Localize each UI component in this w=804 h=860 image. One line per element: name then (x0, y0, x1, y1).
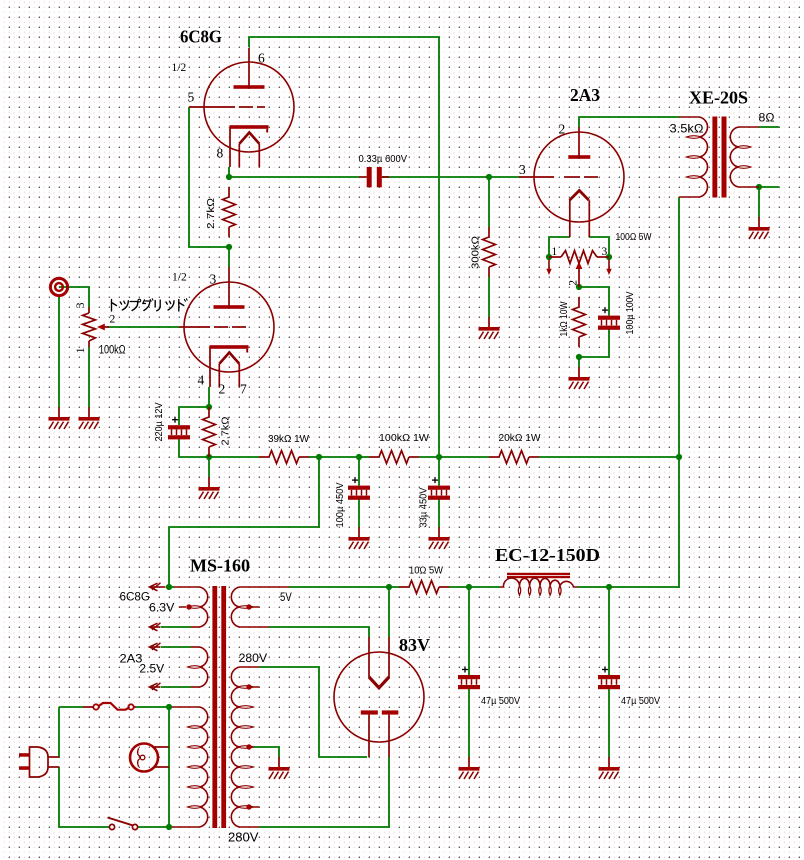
svg-text:20kΩ 1W: 20kΩ 1W (499, 432, 541, 444)
node primary top (166, 704, 172, 710)
wire 47u left bottom (468, 689, 470, 757)
node rail junction B (316, 454, 322, 460)
svg-text:0.33µ 600V: 0.33µ 600V (359, 153, 408, 165)
svg-text:1/2: 1/2 (172, 62, 187, 74)
wire pin8 node to coupling cap (229, 176, 359, 178)
transformer T2 secondary (739, 126, 760, 128)
inductor L1 choke (507, 573, 570, 575)
resistor R7 20k 1W (489, 456, 499, 458)
node choke right (606, 584, 612, 590)
transformer T1 2.5V lens (188, 666, 202, 669)
wire 47u left top (468, 587, 470, 675)
node primary bottom (166, 824, 172, 830)
transformer T1 HV winding (240, 666, 260, 668)
node 2A3 grid junction (486, 174, 492, 180)
wire left plate lead gr (368, 756, 370, 758)
ground jack (58, 407, 60, 417)
resistor R3 100k pot input (88, 307, 90, 313)
svg-text:6C8G: 6C8G (180, 27, 222, 47)
svg-text:3: 3 (519, 162, 526, 177)
svg-text:2: 2 (110, 314, 116, 326)
tube U1a plate (234, 85, 265, 89)
wire plug bottom prong to switch (59, 767, 110, 827)
transformer T1 2.5V winding (191, 646, 200, 648)
tube V3 plate right (382, 710, 399, 714)
wire rail to 39k (209, 456, 259, 458)
transformer T1 6.3V winding (174, 586, 200, 588)
arrow conn 6.3V top (150, 586, 166, 588)
capacitor C1 0.33u coupling (367, 167, 372, 187)
svg-text:2: 2 (219, 382, 226, 397)
ground 1k bypass (578, 367, 580, 377)
wire heater 2.5V bottom (161, 686, 191, 688)
wire wiper node right (579, 287, 609, 316)
svg-text:1: 1 (75, 347, 87, 353)
wire node B to node C (319, 456, 359, 458)
svg-text:6.3V: 6.3V (149, 603, 175, 615)
svg-text:280V: 280V (239, 653, 268, 665)
wire choke right to corner (578, 586, 610, 588)
svg-text:3: 3 (75, 302, 87, 308)
wire plug top prong (58, 707, 60, 757)
transformer T1 core (212, 586, 217, 828)
resistor R10 10R 5W (399, 586, 409, 588)
ground 47u right (608, 757, 610, 767)
lamp DS1 pilot (130, 744, 158, 772)
pot arrow down right (608, 260, 610, 270)
resistor R6 100k 1W (369, 456, 379, 458)
wire 100u100 bottom (579, 329, 609, 357)
wire 100u450 top (358, 457, 360, 486)
arrow conn 2.5V bottom (150, 686, 161, 688)
tube V3 filament (369, 677, 389, 688)
wire pot wiper to tube2 grid (107, 326, 179, 328)
tube U1b heater (219, 353, 239, 364)
capacitor C3 100u 450V (348, 486, 370, 490)
wire 220u bottom to rail (179, 439, 209, 457)
transformer T1 5V lens tap (238, 606, 254, 609)
pot arrow down left (548, 260, 550, 270)
svg-text:39kΩ 1W: 39kΩ 1W (268, 433, 309, 445)
node plate2 junction (226, 244, 232, 250)
resistor R4 2.7k cathode2 (208, 407, 210, 417)
wire 300k to ground (488, 277, 490, 317)
wire OPT sec top stub (759, 126, 779, 128)
wire mains fuse left (59, 706, 83, 708)
tube U1a grid (189, 106, 235, 108)
tube U1b grid (179, 326, 210, 328)
transformer T2 primary lenses (686, 136, 701, 139)
transformer T1 5V winding (240, 586, 290, 588)
svg-text:2.5V: 2.5V (139, 664, 164, 676)
tube U1b plate (214, 305, 245, 309)
svg-text:100µ 100V: 100µ 100V (624, 292, 636, 335)
svg-text:10Ω 5W: 10Ω 5W (409, 565, 443, 577)
wire node C to 100k (359, 456, 369, 458)
svg-text:1kΩ 10W: 1kΩ 10W (558, 301, 570, 336)
wire primary side vertical (168, 707, 170, 827)
tube V2 filament (570, 191, 589, 201)
plug P1 AC (30, 747, 49, 777)
wire 47u right bottom (608, 689, 610, 757)
ground 47u left (468, 757, 470, 767)
svg-text:280V: 280V (228, 831, 259, 845)
pot wiper arrow (97, 324, 105, 331)
wire OPT sec bottom stub (759, 186, 779, 188)
wire HV bottom to right plate (259, 757, 389, 827)
capacitor C7 47u 500V right (598, 675, 620, 679)
ground cathode2 rail (208, 457, 210, 477)
wire jack shield down (58, 297, 60, 407)
svg-text:5: 5 (188, 90, 195, 105)
ground 300k (488, 317, 490, 327)
svg-text:2.7kΩ: 2.7kΩ (220, 416, 232, 445)
wire HV top to left plate (259, 667, 367, 757)
ground pot (88, 407, 90, 417)
node rail junction D (436, 454, 442, 460)
ground HV center tap (278, 757, 280, 767)
capacitor C2 220u cathode2 (168, 425, 190, 429)
pot R8 100R 5W hum (549, 256, 561, 258)
svg-text:3.5kΩ: 3.5kΩ (670, 122, 704, 136)
svg-text:EC-12-150D: EC-12-150D (495, 545, 600, 565)
tube U1a heater (239, 133, 259, 144)
svg-text:8: 8 (217, 146, 224, 161)
svg-text:33µ 450V: 33µ 450V (418, 488, 430, 528)
fuse F1 (93, 704, 98, 709)
wire branch to 220u cap (179, 407, 209, 425)
wire 100u450 bottom to ground (358, 499, 360, 527)
node cathode R bottom (576, 354, 582, 360)
svg-text:5V: 5V (280, 592, 292, 604)
wire fuse to node (136, 706, 169, 708)
wire 100k to node D (419, 456, 439, 458)
svg-text:6: 6 (258, 51, 265, 66)
svg-text:100kΩ: 100kΩ (99, 345, 126, 357)
wire pot bottom to ground (88, 347, 90, 407)
wire 1k bottom to ground (578, 357, 580, 367)
tube U1a cathode (230, 125, 269, 129)
wire 10R to choke node (449, 586, 500, 588)
svg-text:2.7kΩ: 2.7kΩ (205, 198, 217, 229)
svg-text:2: 2 (559, 122, 566, 137)
tube U1b cathode (210, 345, 249, 349)
wire B+ row left of 10R (289, 586, 399, 588)
node wiper junction (576, 284, 582, 290)
svg-text:XE-20S: XE-20S (689, 88, 748, 108)
tube U1b envelope (184, 282, 274, 372)
transformer T1 HV tap2 CT (246, 744, 251, 749)
resistor R1 2.7k cathode1 (228, 187, 230, 197)
resistor R2 300k grid leak (488, 227, 490, 237)
svg-text:1: 1 (552, 246, 558, 258)
wire tube2 cathode down (208, 387, 210, 407)
svg-text:8Ω: 8Ω (759, 111, 775, 125)
transformer T1 6.3V lens tap (188, 606, 202, 609)
svg-text:4: 4 (198, 373, 205, 388)
svg-text:7: 7 (240, 382, 247, 397)
arrow conn 2.5V top (150, 646, 161, 648)
svg-text:MS-160: MS-160 (190, 556, 250, 576)
svg-text:47µ 500V: 47µ 500V (481, 695, 520, 707)
wire right rail vertical (609, 197, 679, 587)
wire 83V fil right leg riser (388, 587, 390, 637)
svg-text:220µ 12V: 220µ 12V (153, 403, 165, 442)
svg-text:47µ 500V: 47µ 500V (621, 695, 660, 707)
node choke left (466, 584, 472, 590)
switch S1 (109, 824, 114, 829)
transformer T1 primary winding (172, 706, 200, 708)
node rail junction A (206, 454, 212, 460)
svg-text:1/2: 1/2 (172, 272, 187, 284)
tube V3 plate left (361, 710, 378, 714)
label top grid (112, 299, 188, 311)
transformer T2 secondary lenses (737, 146, 752, 149)
transformer T1 HV tap1 (246, 684, 251, 689)
wire cap to 2A3 grid (382, 176, 519, 178)
resistor R5 39k 1W (259, 456, 269, 458)
capacitor C5 100u 100V (598, 316, 620, 320)
svg-text:100Ω 5W: 100Ω 5W (616, 231, 652, 243)
node fil pot right (606, 254, 612, 260)
ground 33u450 (438, 527, 440, 537)
svg-text:3: 3 (602, 246, 608, 258)
tube V2 grid (519, 176, 554, 178)
transformer T2 primary (679, 116, 699, 118)
wire 39k to node B (309, 456, 319, 458)
wire grid1 pin5 down to node (189, 107, 226, 247)
node fil pot left (546, 254, 552, 260)
wire 2A3 plate to OPT (579, 117, 679, 127)
tube V2 plate (568, 155, 590, 159)
svg-text:2A3: 2A3 (570, 85, 600, 105)
svg-text:2: 2 (568, 280, 580, 286)
ground 100u450 (358, 527, 360, 537)
tube U1a envelope (204, 62, 294, 152)
svg-text:6C8G: 6C8G (120, 592, 151, 604)
node right rail junction (676, 454, 682, 460)
transformer T2 core (712, 117, 717, 198)
transformer T1 HV lenses (238, 686, 254, 689)
wire switch to node (138, 826, 169, 828)
capacitor C4 33u 450V (428, 486, 450, 490)
wire node D to 20k (439, 456, 489, 458)
wire 33u450 top (438, 457, 440, 486)
capacitor C6 47u 500V left (458, 675, 480, 679)
svg-text:3: 3 (210, 272, 217, 287)
pot wiper arrow up (576, 262, 583, 270)
transformer T1 primary lenses (188, 726, 202, 729)
wire HV tap to ground (252, 747, 279, 757)
ground OPT secondary (758, 217, 760, 227)
wire B supply down-left to heater row (169, 457, 319, 587)
transformer T1 HV tap3 (246, 804, 251, 809)
arrow conn 6.3V bottom (150, 626, 161, 628)
wire jack center to pot top (59, 287, 89, 307)
node B+ row left (386, 584, 392, 590)
wire 6C8G plate to B+ node (249, 37, 439, 457)
resistor R9 1k 10W (578, 297, 580, 307)
svg-text:83V: 83V (399, 635, 430, 655)
tube V3 envelope (334, 652, 424, 742)
svg-text:100µ 450V: 100µ 450V (334, 483, 346, 528)
wire heater 6.3V bottom (161, 626, 191, 628)
wire OPT sec to ground (758, 187, 760, 217)
node OPT sec gnd node (756, 184, 762, 190)
wire 47u right top (608, 587, 610, 675)
jack J1 input (50, 278, 67, 295)
node pin8 junction (226, 174, 232, 180)
wire 2A3 fil left (549, 237, 570, 257)
wire node down to 300k (488, 177, 490, 227)
wire cathode pin8 stub (228, 167, 230, 177)
svg-text:100kΩ 1W: 100kΩ 1W (379, 432, 429, 444)
wire 2A3 fil right (589, 237, 609, 257)
wire heater 6.3V top (166, 586, 174, 588)
node heater row left (166, 584, 172, 590)
wire 5V bottom to 83V fil left (269, 627, 369, 637)
wire heater 2.5V top (161, 646, 191, 648)
node rail junction C (356, 454, 362, 460)
node cathode2 junction (206, 404, 212, 410)
svg-text:300kΩ: 300kΩ (470, 236, 482, 269)
wire 33u450 bottom to ground (438, 499, 440, 527)
wire node to tube2 plate pin (228, 247, 230, 267)
wire 20k to right rail (539, 456, 679, 458)
tube V2 envelope (534, 132, 624, 222)
